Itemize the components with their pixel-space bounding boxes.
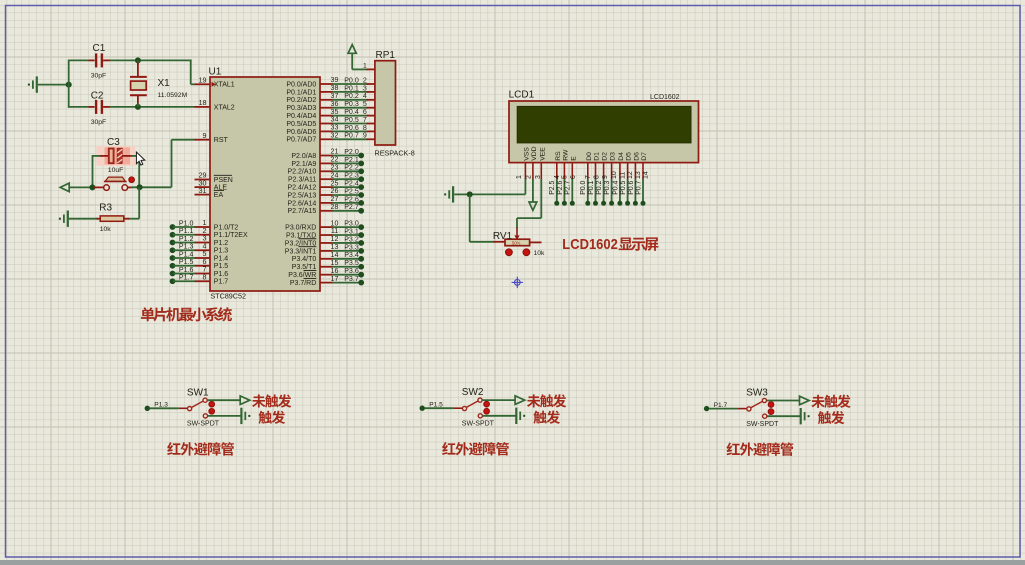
svg-text:P2.4/A12: P2.4/A12 (287, 185, 316, 192)
svg-text:P0.1: P0.1 (588, 180, 595, 194)
svg-text:EA: EA (214, 192, 224, 199)
power terminal (up arrow) (348, 45, 356, 54)
pin RST (9) (195, 139, 211, 141)
svg-text:XTAL1: XTAL1 (214, 82, 235, 89)
wire: top throw to arrow terminal (767, 400, 800, 402)
svg-text:P3.3: P3.3 (344, 243, 359, 251)
svg-text:33: 33 (331, 124, 339, 132)
pin P0.2/AD2 (37) + wire to RP1 pin 4 (320, 99, 333, 101)
node: C1/X1 junction (135, 57, 141, 63)
wire: riser between C1 and C2 rows (68, 60, 70, 108)
svg-text:8: 8 (363, 124, 367, 132)
svg-text:RV1: RV1 (493, 231, 513, 242)
switch state indicator dots (484, 401, 490, 407)
svg-text:P2.7/A15: P2.7/A15 (287, 208, 316, 215)
svg-text:P3.3/INT1: P3.3/INT1 (285, 248, 317, 255)
wire: VEE to RV1 wiper (540, 179, 542, 218)
svg-text:P0.7: P0.7 (344, 132, 359, 140)
svg-text:U1: U1 (209, 67, 222, 78)
svg-text:28: 28 (331, 203, 339, 211)
svg-text:P1.3: P1.3 (214, 248, 229, 255)
label: 红外避障管 (442, 442, 509, 455)
pin P1.7 (8) + net P1.7 (195, 280, 211, 282)
wire: net to pole (709, 408, 738, 410)
svg-text:3: 3 (363, 84, 367, 92)
pin XTAL1 (19) (195, 83, 211, 85)
svg-text:P0.0/AD0: P0.0/AD0 (286, 81, 316, 88)
svg-text:9: 9 (363, 132, 367, 140)
svg-text:37: 37 (331, 92, 339, 100)
svg-text:9: 9 (602, 175, 609, 179)
svg-text:D3: D3 (610, 152, 617, 161)
node P1.5 (420, 406, 425, 411)
wire: net to pole (150, 407, 179, 409)
svg-text:25: 25 (331, 179, 339, 187)
svg-text:P0.0: P0.0 (580, 180, 587, 194)
svg-text:32: 32 (331, 132, 339, 140)
svg-text:SW-SPDT: SW-SPDT (187, 421, 220, 428)
svg-text:XTAL2: XTAL2 (214, 104, 235, 111)
svg-text:D2: D2 (602, 152, 609, 161)
wire: C3 right leg down (138, 155, 140, 187)
svg-text:22: 22 (331, 156, 339, 164)
pin P2.5/A13 (26) + net P2.5 (320, 194, 333, 196)
wire: button to RST riser (131, 186, 172, 188)
ground (LCD GND terminal) (452, 186, 454, 202)
pin P3.6/WR (16) + net P3.6 (320, 274, 333, 276)
svg-text:R3: R3 (99, 202, 112, 213)
pin P3.4/T0 (14) + net P3.4 (320, 258, 333, 260)
svg-text:P3.2: P3.2 (344, 235, 359, 243)
svg-text:16: 16 (331, 267, 339, 275)
svg-text:VEE: VEE (539, 147, 546, 161)
pin P0.1/AD1 (38) + wire to RP1 pin 3 (320, 91, 333, 93)
svg-text:VDD: VDD (531, 146, 538, 160)
svg-text:P2.5: P2.5 (344, 187, 359, 195)
svg-text:P2.0/A8: P2.0/A8 (291, 153, 316, 160)
pin P1.1 (2) + net P1.1 (195, 234, 211, 236)
svg-text:38: 38 (331, 84, 339, 92)
svg-text:31: 31 (199, 187, 207, 195)
wire: RST net (171, 140, 173, 188)
svg-text:LCD1: LCD1 (509, 90, 535, 101)
wire: power to RP1 pin 1 (351, 53, 353, 69)
svg-text:C2: C2 (91, 90, 104, 101)
svg-text:27: 27 (331, 195, 339, 203)
svg-text:50%: 50% (512, 240, 521, 245)
IC U1 STC89C52 (210, 77, 320, 291)
svg-text:P0.5: P0.5 (620, 180, 627, 194)
svg-text:1: 1 (363, 63, 367, 70)
svg-text:P2.5: P2.5 (549, 180, 556, 194)
pin P1.2 (3) + net P1.2 (195, 242, 211, 244)
svg-text:5: 5 (561, 175, 568, 179)
node P1.7 (704, 406, 709, 411)
svg-text:P1.7: P1.7 (179, 274, 194, 282)
svg-text:P2.7: P2.7 (344, 203, 359, 211)
svg-text:P0.2: P0.2 (344, 92, 359, 100)
net P0.0 on LCD pin 7 (587, 179, 589, 203)
svg-text:P1.6: P1.6 (214, 271, 229, 278)
svg-text:D5: D5 (626, 152, 633, 161)
pin P3.7/RD (17) + net P3.7 (320, 282, 333, 284)
svg-text:P2.2: P2.2 (344, 164, 359, 172)
pin P3.1/TXD (11) + net P3.1 (320, 234, 333, 236)
svg-text:P2.1/A9: P2.1/A9 (291, 161, 316, 168)
svg-text:8: 8 (203, 273, 207, 281)
wire: net to pole (425, 407, 454, 409)
pin ALE (30) (195, 186, 211, 188)
svg-text:P0.1/AD1: P0.1/AD1 (286, 89, 316, 96)
svg-text:30pF: 30pF (91, 119, 107, 126)
svg-text:39: 39 (331, 76, 339, 84)
svg-text:P3.7: P3.7 (344, 275, 359, 283)
svg-text:RESPACK-8: RESPACK-8 (375, 148, 415, 157)
svg-text:P0.4/AD4: P0.4/AD4 (286, 113, 316, 120)
svg-text:P3.4: P3.4 (344, 251, 359, 259)
svg-text:34: 34 (331, 116, 339, 124)
svg-text:E: E (570, 156, 577, 161)
ground (top-left GND terminal) (36, 76, 38, 92)
svg-text:P1.1/T2EX: P1.1/T2EX (214, 232, 248, 239)
switch SW1 SW-SPDT group (145, 387, 251, 427)
pin P1.5 (6) + net P1.5 (195, 265, 211, 267)
origin marker (blue crosshair) (512, 277, 523, 288)
label: 红外避障管 (167, 442, 234, 455)
svg-text:6: 6 (570, 175, 577, 179)
pin P2.2/A10 (23) + net P2.2 (320, 170, 333, 172)
svg-text:P0.6/AD6: P0.6/AD6 (286, 129, 316, 136)
net P2.7 on LCD pin 6 (571, 179, 573, 203)
net P0.3 on LCD pin 10 (611, 179, 613, 203)
switch SW3 poles (747, 407, 751, 411)
svg-text:P3.1: P3.1 (344, 227, 359, 235)
node P1.3 (145, 406, 150, 411)
svg-text:24: 24 (331, 171, 339, 179)
pin P1.6 (7) + net P1.6 (195, 273, 211, 275)
svg-text:23: 23 (331, 164, 339, 172)
svg-text:LCD1602: LCD1602 (650, 94, 680, 101)
svg-text:P0.7: P0.7 (635, 180, 642, 194)
pin P0.3/AD3 (36) + wire to RP1 pin 5 (320, 107, 333, 109)
switch state indicator dots (209, 401, 215, 407)
ground (R3 GND terminal) (67, 211, 69, 227)
capacitor C3 selection highlight (96, 146, 135, 166)
svg-text:D0: D0 (586, 152, 593, 161)
node: gnd rail junction (467, 191, 473, 197)
svg-text:RP1: RP1 (376, 50, 396, 61)
svg-text:3: 3 (535, 175, 542, 179)
svg-text:2: 2 (363, 76, 367, 84)
svg-text:P1.4: P1.4 (214, 255, 229, 262)
svg-text:14: 14 (331, 251, 339, 259)
pin PSEN (29) (195, 179, 211, 181)
svg-text:LCD1602: LCD1602 (562, 237, 618, 253)
svg-text:11: 11 (620, 172, 627, 179)
svg-text:4: 4 (554, 175, 561, 179)
svg-text:7: 7 (585, 175, 592, 179)
svg-text:P2.6/A14: P2.6/A14 (287, 200, 316, 207)
pin P0.0/AD0 (39) + wire to RP1 pin 2 (320, 83, 333, 85)
svg-text:PSEN: PSEN (214, 177, 233, 184)
pin XTAL2 (18) (195, 106, 211, 108)
wire: top throw to arrow terminal (482, 399, 515, 401)
svg-text:10: 10 (331, 219, 339, 227)
pin P0.5/AD5 (34) + wire to RP1 pin 7 (320, 123, 333, 125)
svg-text:P1.2: P1.2 (214, 240, 229, 247)
svg-text:11: 11 (331, 227, 338, 235)
pin RP1.1 (367, 68, 375, 70)
pin P1.3 (4) + net P1.3 (195, 249, 211, 251)
svg-text:P0.3: P0.3 (344, 100, 359, 108)
pin P3.0/RXD (10) + net P3.0 (320, 226, 333, 228)
svg-text:15: 15 (331, 259, 339, 267)
resistor R3 10k (97, 202, 130, 233)
svg-text:10uF: 10uF (108, 167, 124, 174)
svg-text:P0.2/AD2: P0.2/AD2 (286, 97, 316, 104)
wire: C3 left leg down (92, 155, 94, 187)
svg-text:13: 13 (331, 243, 339, 251)
switch SW3 SW-SPDT group (704, 388, 810, 428)
svg-text:14: 14 (643, 171, 650, 179)
svg-text:D7: D7 (641, 152, 648, 161)
svg-text:P1.7: P1.7 (214, 279, 229, 286)
net P0.7 on LCD pin 14 (642, 179, 644, 203)
wire: C1 to XTAL1 (110, 59, 191, 61)
svg-text:P3.6: P3.6 (344, 267, 359, 275)
svg-text:D4: D4 (618, 152, 625, 161)
wire: bottom throw to bar terminal (483, 415, 517, 417)
svg-text:P1.5: P1.5 (214, 263, 229, 270)
pin P3.5/T1 (15) + net P3.5 (320, 266, 333, 268)
svg-text:P3.5: P3.5 (344, 259, 359, 267)
svg-text:21: 21 (331, 148, 339, 156)
label: 未触发 (527, 394, 566, 407)
svg-text:P2.1: P2.1 (344, 156, 359, 164)
switch SW2 SW-SPDT group (420, 387, 526, 427)
wire: gnd rail to RV1 left (469, 195, 471, 242)
svg-text:P0.6: P0.6 (344, 124, 359, 132)
svg-text:C1: C1 (93, 43, 106, 54)
capacitor C2 (69, 90, 111, 126)
net P0.5 on LCD pin 12 (627, 179, 629, 203)
svg-text:7: 7 (363, 116, 367, 124)
svg-text:STC89C52: STC89C52 (210, 292, 246, 301)
wire: top throw to arrow terminal (207, 399, 240, 401)
capacitor C1 (69, 43, 111, 79)
svg-text:12: 12 (331, 235, 339, 243)
pin P1.4 (5) + net P1.4 (195, 257, 211, 259)
net P0.6 on LCD pin 13 (634, 179, 636, 203)
svg-text:P3.7/RD: P3.7/RD (290, 280, 316, 287)
svg-text:P3.4/T0: P3.4/T0 (292, 256, 317, 263)
pin P2.0/A8 (21) + net P2.0 (320, 155, 333, 157)
wire: LCD VSS down (524, 179, 526, 194)
svg-text:P1.0/T2: P1.0/T2 (214, 224, 239, 231)
svg-text:RW: RW (562, 149, 569, 161)
svg-text:P2.3: P2.3 (344, 172, 359, 180)
svg-text:P2.6: P2.6 (344, 195, 359, 203)
svg-text:19: 19 (199, 77, 207, 85)
svg-text:P0.3: P0.3 (604, 180, 611, 194)
svg-text:SW1: SW1 (187, 387, 209, 398)
svg-text:SW2: SW2 (462, 387, 484, 398)
pin P1.0 (1) + net P1.0 (195, 226, 211, 228)
net P2.5 on LCD pin 4 (556, 179, 558, 203)
svg-text:8: 8 (594, 175, 601, 179)
svg-text:P0.3/AD3: P0.3/AD3 (286, 105, 316, 112)
svg-text:P2.7: P2.7 (565, 180, 572, 194)
svg-text:P0.0: P0.0 (344, 76, 359, 84)
svg-text:P0.7/AD7: P0.7/AD7 (286, 137, 316, 144)
node: C2/X1 junction (135, 104, 141, 110)
wire: junction down to R3 (138, 187, 140, 218)
pin XTAL1 arrow mark (212, 82, 216, 87)
svg-text:4: 4 (363, 92, 367, 100)
svg-text:C3: C3 (107, 137, 120, 148)
svg-text:11.0592M: 11.0592M (158, 92, 188, 99)
switch SW1 poles (188, 407, 192, 411)
svg-text:P0.5: P0.5 (344, 116, 359, 124)
svg-text:P2.3/A11: P2.3/A11 (288, 177, 316, 184)
svg-text:D6: D6 (633, 152, 640, 161)
svg-text:P0.4: P0.4 (344, 108, 359, 116)
svg-text:35: 35 (331, 108, 339, 116)
svg-text:10k: 10k (100, 226, 112, 233)
svg-text:VSS: VSS (523, 147, 530, 161)
svg-text:P2.4: P2.4 (344, 180, 359, 188)
svg-text:13: 13 (635, 171, 642, 179)
wire: bottom throw to bar terminal (767, 415, 801, 417)
svg-text:P3.0: P3.0 (344, 220, 359, 228)
mouse cursor (136, 152, 144, 165)
wire: bottom throw to bar terminal (208, 415, 242, 417)
svg-text:P2.5/A13: P2.5/A13 (287, 192, 316, 199)
svg-text:RST: RST (214, 137, 229, 144)
svg-text:SW-SPDT: SW-SPDT (462, 420, 495, 427)
pin P3.3/INT1 (13) + net P3.3 (320, 250, 333, 252)
svg-text:17: 17 (331, 275, 339, 283)
svg-text:36: 36 (331, 100, 339, 108)
label: 未触发 (811, 395, 850, 408)
wire: arrow to button (69, 186, 92, 188)
svg-text:26: 26 (331, 187, 339, 195)
svg-text:9: 9 (203, 132, 207, 140)
node: button left junction (89, 184, 95, 190)
svg-text:18: 18 (199, 99, 207, 107)
wire: gnd rail to VSS (470, 193, 526, 195)
crystal X1 11.0592M (130, 60, 188, 107)
svg-text:P0.1: P0.1 (344, 84, 359, 92)
node: GND junction (66, 82, 72, 88)
svg-text:SW-SPDT: SW-SPDT (746, 421, 779, 428)
svg-text:6: 6 (363, 108, 367, 116)
pin P3.2/INT0 (12) + net P3.2 (320, 242, 333, 244)
svg-text:SW3: SW3 (746, 388, 768, 399)
svg-text:P2.0: P2.0 (344, 148, 359, 156)
label: 单片机最小系统 (141, 307, 232, 321)
pin P0.6/AD6 (33) + wire to RP1 pin 8 (320, 130, 333, 132)
svg-text:2: 2 (526, 175, 533, 179)
power terminal (down arrow, VDD) (532, 179, 534, 202)
svg-text:X1: X1 (158, 78, 171, 89)
pin P2.7/A15 (28) + net P2.7 (320, 210, 333, 212)
label: 触发 (818, 411, 845, 424)
pin P0.7/AD7 (32) + wire to RP1 pin 9 (320, 138, 333, 140)
svg-text:P0.2: P0.2 (596, 180, 603, 194)
capacitor C3 10uF (93, 137, 140, 174)
pin P2.1/A9 (22) + net P2.1 (320, 162, 333, 164)
pin P2.6/A14 (27) + net P2.6 (320, 202, 333, 204)
label: 红外避障管 (726, 442, 793, 455)
svg-text:P0.5/AD5: P0.5/AD5 (286, 121, 316, 128)
label: 未触发 (252, 394, 291, 407)
label: 触发 (258, 411, 285, 424)
input terminal arrow (reset net, left) (60, 183, 69, 192)
svg-text:P3.0/RXD: P3.0/RXD (285, 225, 316, 232)
svg-text:10: 10 (611, 171, 618, 179)
node: button right junction (137, 184, 143, 190)
svg-text:30pF: 30pF (91, 72, 107, 79)
potentiometer RV1 10k (493, 228, 545, 258)
svg-text:P0.4: P0.4 (612, 180, 619, 194)
wire: C2 to XTAL2 (110, 106, 194, 108)
svg-text:12: 12 (627, 171, 634, 179)
pin EA (31) (195, 194, 211, 196)
RV1 unconnected pin dots (506, 249, 513, 256)
pin P2.4/A12 (25) + net P2.4 (320, 186, 333, 188)
net P2.6 on LCD pin 5 (563, 179, 565, 203)
switch state indicator dots (768, 402, 774, 408)
button state indicator (red dot) (129, 177, 135, 183)
svg-text:10k: 10k (534, 250, 546, 257)
switch SW2 poles (462, 406, 466, 410)
pin P2.3/A11 (24) + net P2.3 (320, 178, 333, 180)
pin P0.4/AD4 (35) + wire to RP1 pin 6 (320, 115, 333, 117)
LCD1 LCD1602 module body (509, 90, 699, 163)
svg-text:P0.6: P0.6 (628, 180, 635, 194)
svg-text:D1: D1 (594, 152, 601, 161)
push button (reset) (94, 177, 132, 190)
net P0.2 on LCD pin 9 (603, 179, 605, 203)
net P0.1 on LCD pin 8 (595, 179, 597, 203)
label: 触发 (533, 411, 560, 424)
net P0.4 on LCD pin 11 (619, 179, 621, 203)
svg-text:1: 1 (516, 175, 523, 179)
svg-text:P2.2/A10: P2.2/A10 (287, 169, 316, 176)
svg-text:P2.6: P2.6 (557, 180, 564, 194)
svg-text:RS: RS (555, 151, 562, 161)
svg-text:5: 5 (363, 100, 367, 108)
resistor pack RP1 RESPACK-8 (375, 50, 415, 157)
